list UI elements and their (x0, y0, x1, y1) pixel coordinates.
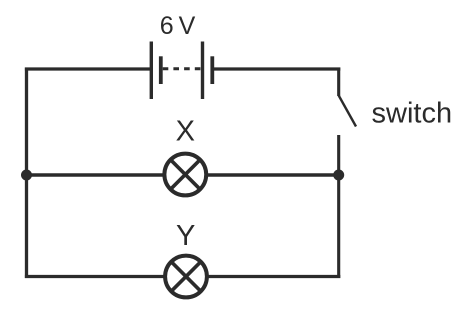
battery cell 2 long plate (201, 42, 204, 100)
lamp X (164, 154, 206, 196)
svg-text:X: X (176, 116, 195, 148)
wire middle left segment (27, 173, 165, 177)
wire left vertical (25, 68, 28, 279)
switch blade (open) (339, 96, 356, 127)
battery cell 1 long plate (150, 42, 153, 100)
svg-text:Y: Y (176, 220, 195, 252)
svg-text:6 V: 6 V (160, 12, 196, 40)
wire middle right segment (206, 173, 339, 177)
wire top right segment (212, 67, 340, 70)
battery cell 2 short plate (210, 56, 214, 84)
wire bottom right segment (207, 275, 340, 278)
lamp Y (165, 256, 207, 298)
node junction dot left (21, 170, 32, 181)
wire switch lower contact / right vertical (337, 135, 340, 278)
battery dashed link wire (163, 67, 201, 70)
wire switch upper contact (337, 68, 340, 97)
battery cell 1 short plate (159, 56, 163, 84)
wire top left segment (25, 67, 151, 70)
wire bottom left segment (25, 275, 165, 278)
svg-text:switch: switch (372, 98, 453, 130)
node junction dot right (333, 170, 344, 181)
